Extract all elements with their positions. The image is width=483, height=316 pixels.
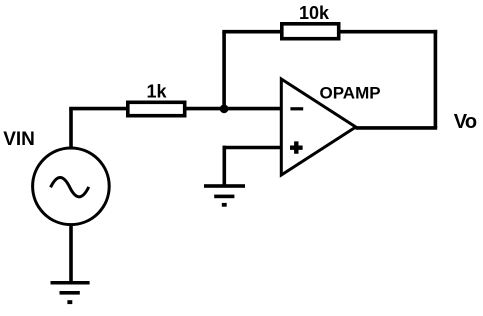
op-amp U1 (triangle) bbox=[281, 79, 356, 175]
sine wave symbol bbox=[51, 178, 89, 197]
label Vo bbox=[454, 111, 477, 133]
wire: VIN top vertical (source to input node corner) bbox=[69, 109, 73, 149]
value label 1k bbox=[146, 81, 167, 101]
value label 10k bbox=[299, 3, 330, 23]
svg-text:Vo: Vo bbox=[454, 111, 477, 133]
wire: feedback top horizontal left (to 10k resistor) bbox=[222, 30, 281, 34]
wire: feedback right vertical (down to output wire) bbox=[434, 30, 438, 128]
op-amp inverting input symbol (minus) bbox=[290, 107, 303, 110]
node: inverting input junction dot bbox=[220, 104, 229, 113]
wire: input horizontal from VIN corner to 1k resistor bbox=[69, 107, 127, 111]
label VIN bbox=[3, 129, 35, 150]
svg-text:VIN: VIN bbox=[3, 129, 35, 150]
wire: non-inverting input ground vertical bbox=[223, 146, 227, 186]
wire: node to op-amp inverting input bbox=[222, 107, 281, 111]
wire: feedback top horizontal right (10k to right rail) bbox=[340, 30, 438, 34]
ground (non-inverting input) bbox=[204, 184, 245, 207]
op-amp non-inverting input symbol (plus) bbox=[290, 141, 303, 153]
wire: VIN bottom vertical (source to ground) bbox=[69, 224, 73, 284]
wire: feedback left vertical (node up to top rail) bbox=[222, 32, 226, 110]
wire: non-inverting input horizontal bbox=[223, 146, 282, 150]
resistor 1k bbox=[128, 102, 185, 115]
svg-text:OPAMP: OPAMP bbox=[320, 83, 381, 102]
voltage source VIN (circle) bbox=[33, 148, 110, 225]
resistor 10k bbox=[282, 24, 339, 39]
svg-text:1k: 1k bbox=[146, 81, 167, 101]
ground (below VIN source) bbox=[51, 281, 90, 304]
wire: op-amp output horizontal to Vo bbox=[356, 126, 438, 130]
label OPAMP bbox=[320, 83, 381, 102]
svg-text:10k: 10k bbox=[299, 3, 330, 23]
wire: 1k resistor to inverting-input node bbox=[186, 107, 226, 111]
